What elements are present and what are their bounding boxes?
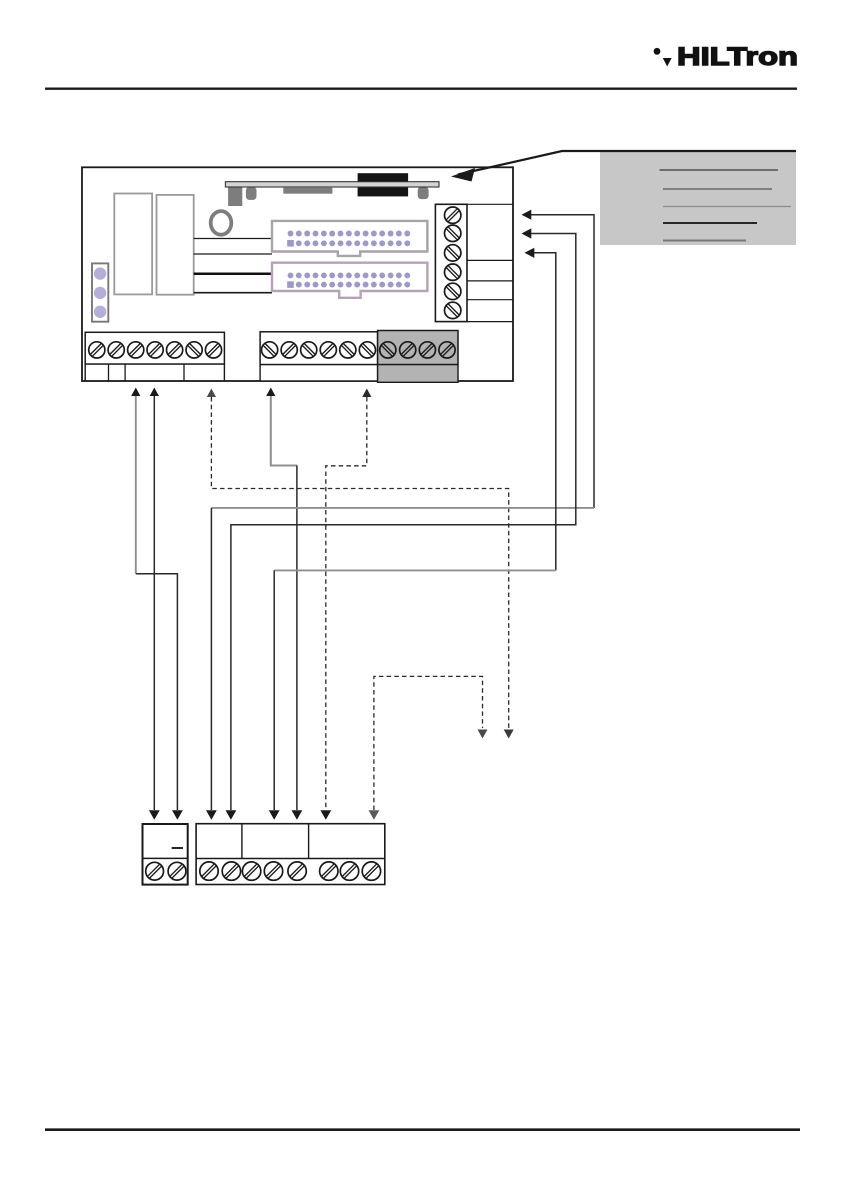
pointer wire to programming connector [458,151,796,175]
bottom-left strip screw 5 [167,342,183,358]
bottom-left strip screw 1 [89,342,105,358]
LED 3 [94,306,106,318]
wire W4 gray segment [271,396,297,466]
ribbon connector J2 [272,263,427,298]
bottom-mid strip screw 6 [359,342,375,358]
note line 2 [663,188,772,190]
bottom-mid strip screw 4 [320,342,336,358]
bottom-mid terminal strip white part [260,332,378,365]
wire W3 arrowhead down [504,730,514,739]
sub-row divider 2 [124,364,126,381]
wire R1 arrowhead down [206,810,217,820]
block B screw 7 [340,862,358,880]
block B divider [196,858,385,860]
wire R3 arrowhead left [525,248,535,258]
bottom-left strip screw 4 [147,342,163,358]
gray terminal screw 2 [400,342,416,358]
header rule [45,87,797,89]
PCB board outline [82,167,513,381]
wire W6 arrowhead mid [478,730,488,739]
right terminal screw 6 [445,302,461,318]
gray sub-row [378,365,458,383]
wire R2 [231,234,576,811]
bottom-left strip sub-row [85,364,224,381]
gray terminal screw 4 [439,342,455,358]
LED block [92,263,108,321]
wire W1 arrowhead up [131,388,140,397]
block B vertical 2 [308,824,310,859]
block B screw 5 [288,862,306,880]
wire W3 arrowhead up [207,389,216,398]
block B screw 6 [320,862,338,880]
wire relay to connector J1 pin b [194,253,272,255]
block A screw 2 [168,862,186,880]
svg-text:HILTron: HILTron [677,43,798,71]
bottom-mid strip screw 1 [262,342,278,358]
sub-row divider 1 [108,364,110,381]
note line 5 [663,240,746,242]
gray terminal screw 1 [380,342,396,358]
lower terminal block A [143,824,188,885]
wire R1 arrowhead left [522,210,532,220]
logo dot [654,48,661,55]
wire W6 dashed [374,676,483,810]
bottom-left strip screw 7 [205,342,221,358]
wire W6 arrowhead down [369,810,380,820]
bottom-mid white sub-row [260,365,378,381]
bottom-left terminal strip [85,332,224,364]
bottom-left strip screw 6 [186,342,202,358]
wire W4 lower segment [296,466,298,811]
lower terminal block B [196,824,385,885]
pointer arrowhead [451,168,475,182]
relay K2 [157,195,194,295]
bottom-left strip screw 3 [128,342,144,358]
gray terminal screw 3 [419,342,435,358]
wire W4 arrowhead down [292,810,303,820]
wire W1 lower segment [136,574,178,810]
toroid L1 [211,211,232,235]
right cell divider 3 [467,299,513,301]
right terminal screw 4 [445,264,461,280]
footer rule [45,1128,800,1131]
logo triangle [663,58,672,67]
block A minus label [172,847,183,849]
right terminal screw 5 [445,283,461,299]
wire R3 upper [529,253,556,571]
bottom-mid strip screw 3 [301,342,317,358]
right cell divider 2 [467,280,513,282]
right cells top line [467,203,513,205]
wire W5 dashed [326,397,367,810]
ribbon connector J1 pin dots [287,231,410,247]
right terminal screw 2 [445,225,461,241]
connector leg right [418,187,429,199]
wire W1 arrowhead down [172,810,183,820]
ribbon connector J1 [272,221,427,256]
wire W5 arrowhead down [320,810,331,820]
note line 3 [663,206,791,208]
wire R1 gray horizontal [211,507,594,509]
connector mid block [283,188,332,194]
wire W2 arrowhead down [149,810,160,820]
wire R1 lower [210,508,212,810]
block B screw 4 [264,862,282,880]
programming connector black housing [358,173,409,196]
right terminal block [435,204,467,321]
wire R1 upper [527,215,594,508]
wire W2 [153,396,155,810]
right cell divider 1 [467,259,513,261]
notes gray box [600,151,796,245]
block A divider [143,857,188,859]
wire R3 arrowhead down [269,810,280,820]
block B screw 2 [222,862,240,880]
ribbon connector J2 pin dots [287,272,410,287]
block B screw 3 [242,862,260,880]
block B vertical 1 [241,824,243,859]
wire relay to connector J2 pin b [194,292,272,294]
right terminal screw 1 [445,207,461,223]
sub-row divider 3 [183,364,185,381]
wire R2 arrowhead left [522,228,532,238]
bottom-mid strip screw 2 [281,342,297,358]
programming connector bar [225,182,439,187]
block B screw 8 [362,862,380,880]
LED 1 [94,267,106,279]
bottom-mid strip screw 5 [340,342,356,358]
note line 1 [660,169,779,171]
wire relay to connector J2 pin a [194,272,272,275]
connector leg left [228,187,242,206]
right cell divider 4 [467,321,513,323]
wire W3 dashed [211,397,508,728]
right terminal screw 3 [445,245,461,261]
wire W4 arrowhead up [266,388,275,397]
block A screw 1 [146,862,164,880]
wire W5 arrowhead up [362,389,371,398]
wire R2 arrowhead down [226,810,237,820]
wire W1 gray segment [135,396,137,574]
relay K1 [114,194,152,295]
wire W2 arrowhead up [150,388,159,397]
wire relay to connector J1 pin a [194,238,272,240]
note line 4 [663,222,757,224]
wire R3 lower [273,570,275,810]
block B screw 1 [200,862,218,880]
wire R3 gray horizontal [274,569,556,571]
connector leg left 2 [246,187,257,200]
LED 2 [94,287,106,299]
bottom-right gray terminal part [378,331,458,365]
bottom-left strip screw 2 [108,342,124,358]
